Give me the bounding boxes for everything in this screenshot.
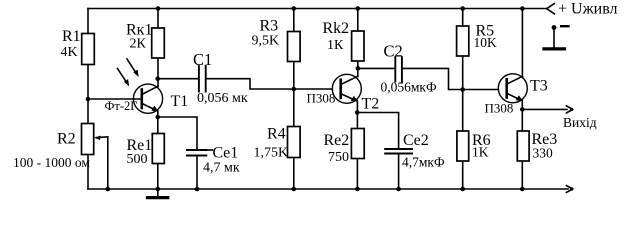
transistor T1 [133, 84, 162, 113]
svg-text:Вихід: Вихід [563, 115, 597, 130]
wire left branch R1-R2 [87, 9, 89, 190]
wire output Вихід [522, 108, 567, 110]
wire T3 emitter [521, 100, 523, 109]
svg-text:R1: R1 [62, 28, 81, 45]
resistor R2 variable [82, 124, 94, 155]
wire Ce2 branch [357, 113, 398, 149]
svg-text:R3: R3 [260, 18, 279, 35]
node Re2 bottom [355, 187, 360, 192]
svg-text:T1: T1 [171, 93, 189, 110]
wire Ce2 bottom [398, 154, 400, 190]
svg-text:9,5K: 9,5K [252, 33, 280, 48]
svg-text:R4: R4 [267, 125, 286, 142]
ground symbol [148, 189, 168, 198]
svg-text:100 - 1000 ом: 100 - 1000 ом [13, 155, 90, 170]
wire R4 branch [293, 89, 295, 189]
transistor T2 [332, 74, 361, 103]
node T2 collector [356, 66, 361, 71]
tick Ce1 label [207, 149, 212, 151]
wire Re3 branch [521, 109, 523, 189]
resistor Rk2 [352, 31, 364, 61]
arrowhead R2 wiper [94, 136, 101, 140]
resistor R1 [82, 34, 95, 65]
svg-text:0,056 мк: 0,056 мк [197, 91, 248, 106]
svg-text:Rk2: Rk2 [323, 20, 350, 37]
svg-text:П308: П308 [485, 100, 514, 115]
node T2 emitter [355, 110, 360, 115]
node Rk2 top [356, 6, 361, 11]
node Re1 bottom [156, 187, 161, 192]
node Re3 bottom [520, 187, 525, 192]
capacitor C2 [395, 57, 402, 82]
node R3 top [292, 6, 297, 11]
svg-text:Ce2: Ce2 [403, 132, 429, 149]
terminal chevron + Uживл [547, 4, 555, 14]
transistor T3 [498, 74, 527, 103]
svg-text:Фт-2Г: Фт-2Г [105, 99, 138, 113]
wire Ce1 bottom [196, 156, 198, 190]
node R5 top [460, 6, 465, 11]
wire Ce1 branch [158, 117, 197, 150]
node R2 wiper bottom [106, 187, 111, 192]
resistor Re1 [152, 134, 164, 164]
wire Rk1 branch / T1 collector [157, 9, 159, 87]
wire T3 collector [521, 9, 523, 78]
resistor Re2 [351, 129, 364, 159]
wire R5 branch [462, 9, 464, 90]
node T1 emitter [156, 115, 161, 120]
wire bottom rail [88, 188, 568, 190]
wire R6 branch [462, 90, 464, 190]
wire Rk2 branch / T2 collector [357, 9, 359, 77]
node Ce1 bottom [195, 187, 200, 192]
node T1 collector [155, 76, 160, 81]
capacitor Ce2 [385, 149, 412, 154]
svg-text:1К: 1К [327, 38, 344, 53]
wire C2 input [358, 67, 395, 69]
wire Re2 branch [356, 113, 358, 190]
svg-text:4,7мкФ: 4,7мкФ [402, 155, 445, 170]
node R6 bottom [460, 187, 465, 192]
resistor R3 [288, 32, 301, 62]
wire T2 emitter [356, 101, 358, 113]
resistor Rk1 [152, 28, 165, 58]
minus terminal ground symbol [544, 25, 569, 49]
wire T1 base [88, 98, 142, 100]
node base T1 [86, 97, 91, 102]
svg-text:Ce1: Ce1 [213, 144, 239, 161]
svg-text:Re2: Re2 [324, 132, 350, 149]
svg-text:1K: 1K [472, 145, 489, 160]
node Rk1 top [156, 6, 161, 11]
svg-text:T3: T3 [530, 78, 548, 95]
node Ce2 bottom [396, 187, 401, 192]
svg-text:500: 500 [127, 152, 148, 167]
node R4 bottom [292, 187, 297, 192]
svg-text:750: 750 [328, 150, 349, 165]
svg-text:330: 330 [533, 146, 554, 161]
svg-text:+ Uживл: + Uживл [558, 0, 618, 17]
svg-text:2К: 2К [130, 37, 147, 52]
svg-text:C2: C2 [384, 42, 403, 61]
arrow output end [566, 106, 573, 113]
svg-text:10K: 10K [474, 35, 498, 50]
svg-text:0,056мкФ: 0,056мкФ [381, 80, 437, 95]
capacitor Ce1 [187, 150, 206, 156]
light arrows phototransistor [118, 59, 139, 87]
wire T1 emitter [157, 110, 159, 117]
wire R2 wiper [97, 137, 108, 189]
wire Re1 branch [157, 117, 159, 189]
svg-text:4,7 мк: 4,7 мк [203, 161, 240, 176]
node T2 base divider [292, 87, 297, 92]
resistor Re3 [517, 131, 529, 161]
resistor R4 [288, 127, 301, 158]
node T3 collector top [520, 6, 525, 11]
wire C1 to T2 base [207, 79, 333, 89]
svg-text:R2: R2 [57, 131, 76, 148]
wire C2 to T3 base [403, 68, 499, 89]
capacitor C1 [199, 66, 206, 92]
svg-text:C1: C1 [193, 50, 212, 69]
resistor R6 [457, 131, 469, 161]
svg-text:1,75K: 1,75K [254, 145, 289, 160]
resistor R5 [457, 26, 469, 56]
svg-text:T2: T2 [362, 96, 380, 113]
wire C1 input [158, 78, 198, 80]
arrow bottom rail end [566, 186, 573, 193]
svg-text:4K: 4K [61, 45, 78, 60]
wire top supply rail [88, 8, 547, 10]
svg-text:П308: П308 [307, 91, 336, 106]
wire R3 branch [293, 9, 295, 90]
node T3 base divider [460, 87, 465, 92]
node T3 emitter [520, 107, 525, 112]
